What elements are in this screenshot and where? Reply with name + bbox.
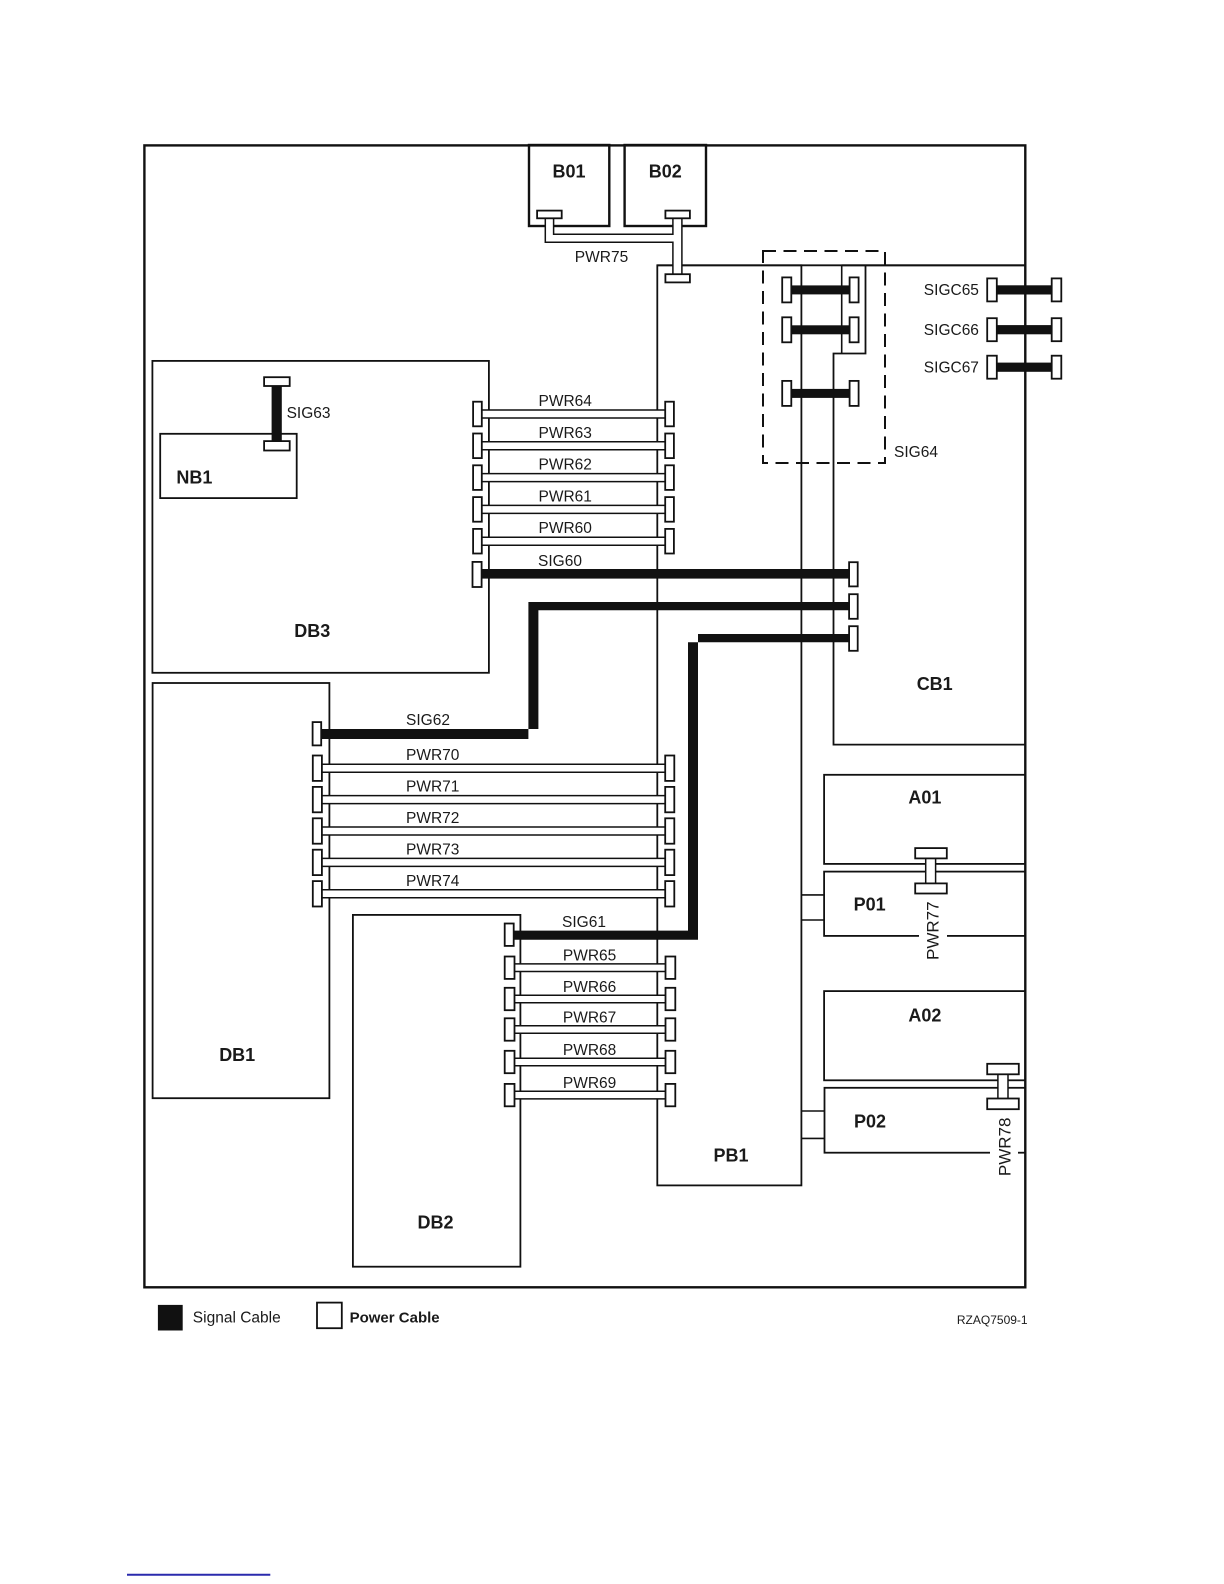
svg-text:PWR69: PWR69 [563, 1075, 616, 1092]
svg-text:SIG63: SIG63 [287, 405, 331, 422]
svg-text:PWR60: PWR60 [538, 520, 592, 537]
cable PWR60 (power, DB3 to PB1) [482, 537, 665, 545]
svg-text:A01: A01 [908, 787, 941, 807]
cable PWR65 (power, DB2 to PB1) [515, 964, 666, 972]
cable PWR72 (power, DB1 to PB1) [322, 827, 665, 835]
svg-text:SIGC67: SIGC67 [924, 359, 979, 376]
svg-text:NB1: NB1 [176, 468, 212, 488]
cable SIG62 (signal, DB1 to CB1) [321, 602, 849, 739]
outer frame border [144, 145, 1025, 1287]
cable PWR64 (power, DB3 to PB1) [482, 410, 665, 418]
svg-text:SIG60: SIG60 [538, 553, 582, 570]
svg-text:Power Cable: Power Cable [350, 1310, 440, 1327]
svg-text:PWR70: PWR70 [406, 747, 460, 764]
decorative blue rule [127, 1574, 270, 1576]
svg-text:SIG64: SIG64 [894, 444, 938, 461]
box A02 [824, 991, 1025, 1080]
svg-text:P01: P01 [854, 895, 886, 915]
box B02 [625, 145, 706, 226]
cable SIG64 row 1 (signal) [791, 285, 849, 294]
cable SIGC67 (signal) [997, 363, 1052, 372]
box DB3 [152, 361, 489, 673]
svg-text:B02: B02 [649, 162, 682, 182]
svg-text:PWR74: PWR74 [406, 873, 460, 890]
svg-text:PWR66: PWR66 [563, 979, 616, 996]
box CB1 [834, 265, 1026, 744]
box B01 [529, 145, 609, 226]
svg-text:SIG61: SIG61 [562, 914, 606, 931]
svg-text:PWR72: PWR72 [406, 810, 459, 827]
cable PWR75 (power, B01/B02 to PB1) [545, 218, 682, 274]
svg-text:PWR62: PWR62 [538, 457, 591, 474]
svg-text:SIG62: SIG62 [406, 712, 450, 729]
svg-text:PWR68: PWR68 [563, 1042, 616, 1059]
cable SIG64 row 2 (signal) [791, 325, 849, 334]
svg-text:PWR64: PWR64 [538, 393, 592, 410]
legend power cable swatch [317, 1303, 342, 1329]
cable PWR62 (power, DB3 to PB1) [482, 474, 665, 482]
box DB1 [153, 683, 330, 1098]
cable PWR63 (power, DB3 to PB1) [482, 442, 665, 450]
svg-text:PWR78: PWR78 [995, 1118, 1014, 1177]
cable PWR70 (power, DB1 to PB1) [322, 764, 665, 772]
svg-text:A02: A02 [908, 1006, 941, 1026]
wire PB1-P01 channel [801, 894, 824, 896]
cable PWR77 (power, A01 to P01) [926, 858, 936, 883]
box DB2 [353, 915, 521, 1267]
cable PWR78 (power, A02 to P02) [998, 1074, 1008, 1098]
box NB1 [160, 434, 297, 498]
cable PWR74 (power, DB1 to PB1) [322, 890, 665, 898]
svg-text:PWR67: PWR67 [563, 1010, 616, 1027]
cable SIGC65 (signal) [997, 285, 1052, 294]
box A01 [824, 775, 1025, 864]
svg-text:SIGC65: SIGC65 [924, 282, 979, 299]
svg-text:DB3: DB3 [294, 621, 330, 641]
cable SIG61 (signal, DB2 to CB1) [514, 634, 849, 940]
dashed group SIG64 [763, 251, 885, 463]
box P01 [824, 872, 1025, 936]
legend signal cable swatch [158, 1305, 183, 1331]
cable PWR66 (power, DB2 to PB1) [515, 995, 666, 1003]
cable PWR68 (power, DB2 to PB1) [515, 1058, 666, 1066]
cable PWR71 (power, DB1 to PB1) [322, 796, 665, 804]
cable PWR69 (power, DB2 to PB1) [515, 1091, 666, 1099]
cable SIGC66 (signal) [997, 325, 1052, 334]
svg-text:SIGC66: SIGC66 [924, 322, 979, 339]
wire PB1-P02 channel [801, 1110, 824, 1112]
svg-text:PWR61: PWR61 [538, 488, 591, 505]
svg-text:PWR73: PWR73 [406, 841, 459, 858]
svg-text:B01: B01 [552, 162, 585, 182]
svg-text:PWR65: PWR65 [563, 948, 616, 965]
cable SIG60 (signal, DB3 to CB1) [482, 569, 849, 579]
node line PB1/CB1 top rail [657, 264, 1025, 266]
svg-text:P02: P02 [854, 1112, 886, 1132]
svg-text:Signal Cable: Signal Cable [193, 1310, 281, 1327]
svg-text:DB1: DB1 [219, 1045, 255, 1065]
svg-text:PWR71: PWR71 [406, 779, 459, 796]
svg-text:DB2: DB2 [417, 1213, 453, 1233]
box PB1 [657, 265, 801, 1185]
svg-text:PWR63: PWR63 [538, 425, 591, 442]
cable SIG63 (signal, DB3 to NB1) [272, 384, 282, 443]
cable PWR61 (power, DB3 to PB1) [482, 505, 665, 513]
cable SIG64 row 3 (signal) [791, 389, 849, 398]
box P02 [825, 1088, 1026, 1153]
cable PWR73 (power, DB1 to PB1) [322, 858, 665, 866]
cable PWR67 (power, DB2 to PB1) [515, 1026, 666, 1034]
svg-text:PWR75: PWR75 [575, 249, 628, 266]
svg-text:RZAQ7509-1: RZAQ7509-1 [957, 1313, 1028, 1327]
svg-text:PWR77: PWR77 [923, 901, 942, 960]
svg-text:PB1: PB1 [713, 1146, 748, 1166]
svg-text:CB1: CB1 [917, 674, 953, 694]
